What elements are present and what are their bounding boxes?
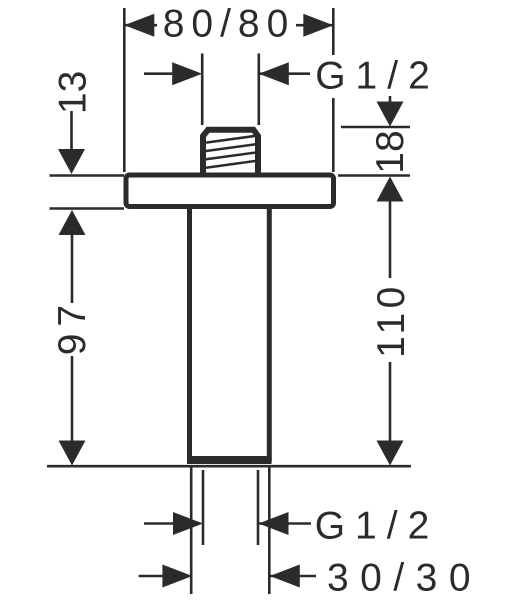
leader line left of bottom G1/2: [144, 522, 176, 525]
extension line below pipe outer left: [190, 468, 193, 595]
svg-text:30/30: 30/30: [327, 557, 482, 600]
leader line right of top G1/2: [259, 72, 310, 75]
arrowhead bottom G1/2 left: [173, 512, 203, 535]
svg-text:G1/2: G1/2: [315, 55, 440, 98]
extension line flange top left: [50, 174, 125, 177]
baseline bottom extension line: [47, 465, 411, 468]
arrowhead top G1/2 right: [259, 62, 289, 85]
arrowhead 80/80 left: [124, 14, 154, 37]
leader stub above 18: [389, 96, 392, 104]
svg-text:13: 13: [52, 71, 95, 114]
arrowhead bottom G1/2 right: [259, 512, 289, 535]
svg-text:97: 97: [51, 298, 94, 355]
leader line left of top G1/2: [144, 72, 176, 75]
extension line left of top G1/2 thread: [201, 54, 204, 126]
thread line 1: [206, 136, 255, 143]
thread line 4: [206, 161, 255, 168]
extension line right of 80/80 lower segment: [332, 98, 335, 172]
dimension line 97 lower segment: [71, 356, 74, 442]
arrowhead 30/30 right: [270, 565, 300, 588]
thread line 2: [206, 144, 255, 151]
pipe bottom edge: [187, 456, 272, 464]
arrowhead top G1/2 left: [172, 62, 202, 85]
arrowhead 97 up: [59, 210, 86, 235]
dimension line 97 upper segment: [71, 232, 74, 303]
arrowhead 80/80 right: [303, 14, 333, 37]
extension line left of 80/80: [123, 8, 126, 172]
thread line 3: [206, 153, 255, 160]
extension line right of 80/80 upper segment: [332, 8, 335, 55]
leader line left of 30/30: [139, 575, 166, 578]
svg-text:80/80: 80/80: [163, 3, 296, 46]
extension line below pipe inner left: [202, 470, 205, 545]
extension line below pipe outer right: [268, 468, 271, 595]
arrowhead 13 down: [58, 149, 85, 174]
pipe right wall: [267, 206, 272, 462]
dimension line 80/80 left stub: [124, 24, 157, 27]
svg-text:110: 110: [370, 282, 413, 358]
pipe left wall: [187, 206, 192, 462]
dimension line 110 lower segment: [389, 362, 392, 442]
arrowhead 97 down: [59, 441, 86, 466]
flange escutcheon plate: [126, 175, 334, 207]
extension line flange top right: [338, 174, 410, 177]
leader line right of bottom G1/2: [259, 522, 312, 525]
threaded nipple outline: [203, 130, 258, 176]
arrowhead 18 down: [377, 102, 404, 127]
leader line right of 30/30: [270, 575, 316, 578]
extension line flange bottom left: [50, 207, 125, 210]
svg-text:G1/2: G1/2: [315, 505, 440, 548]
arrowhead 110 up: [377, 177, 404, 202]
extension line below pipe inner right: [257, 470, 260, 545]
arrowhead 110 down: [377, 441, 404, 466]
extension line thread top right: [341, 126, 410, 129]
extension line right of top G1/2 thread: [257, 54, 260, 126]
arrowhead 30/30 left: [162, 565, 192, 588]
dimension line 80/80 right stub: [296, 24, 333, 27]
dimension line 13: [70, 111, 73, 150]
svg-text:18: 18: [369, 130, 412, 173]
dimension line 110 upper segment: [389, 199, 392, 278]
